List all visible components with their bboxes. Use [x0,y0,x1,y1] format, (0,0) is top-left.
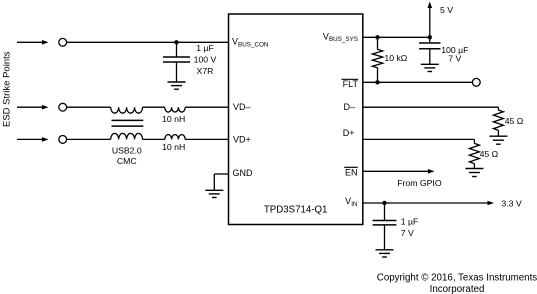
svg-text:CMC: CMC [117,156,137,166]
svg-text:EN: EN [345,168,358,178]
svg-text:ESD Strike Points: ESD Strike Points [2,51,13,127]
svg-text:USB2.0: USB2.0 [112,146,142,156]
svg-text:10 kΩ: 10 kΩ [384,53,407,63]
svg-text:D–: D– [343,102,355,112]
svg-text:1 µF: 1 µF [196,43,214,53]
svg-text:GND: GND [233,168,254,178]
svg-text:10 nH: 10 nH [162,114,185,124]
svg-text:X7R: X7R [197,66,214,76]
svg-text:VD–: VD– [233,102,251,112]
svg-text:VIN: VIN [345,196,358,208]
svg-text:Copyright © 2016, Texas Instru: Copyright © 2016, Texas Instruments [377,272,537,283]
svg-text:VBUS_SYS: VBUS_SYS [323,31,358,43]
svg-text:VBUS_CON: VBUS_CON [232,37,269,49]
svg-text:7 V: 7 V [448,54,461,64]
svg-text:100 V: 100 V [194,55,217,65]
svg-text:45 Ω: 45 Ω [505,116,524,126]
svg-text:7 V: 7 V [401,228,414,238]
svg-text:Incorporated: Incorporated [430,284,485,294]
svg-text:45 Ω: 45 Ω [480,149,499,159]
svg-text:VD+: VD+ [233,134,251,144]
svg-text:1 µF: 1 µF [401,217,419,227]
svg-text:D+: D+ [343,128,355,138]
svg-text:3.3 V: 3.3 V [501,199,521,209]
svg-text:From GPIO: From GPIO [397,178,442,188]
svg-text:TPD3S714-Q1: TPD3S714-Q1 [264,204,328,215]
svg-text:FLT: FLT [343,79,359,89]
svg-text:5 V: 5 V [440,5,453,15]
svg-text:10 nH: 10 nH [162,142,185,152]
